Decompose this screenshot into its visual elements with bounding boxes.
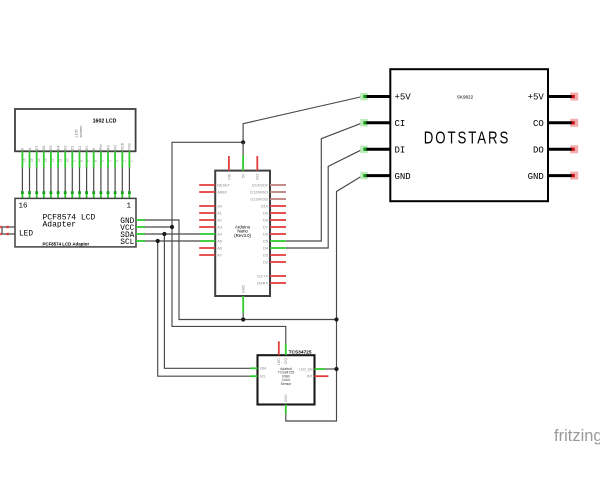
Nano pin A7 bbox=[199, 253, 222, 257]
svg-text:D1: D1 bbox=[78, 146, 82, 150]
svg-text:16: 16 bbox=[23, 158, 27, 162]
svg-text:5V: 5V bbox=[242, 173, 246, 178]
junction GND at TCS LED_EN bbox=[334, 367, 338, 371]
wire VCC net adapter-to-Nano5V bbox=[145, 142, 243, 227]
TCS pin GND bottom bbox=[284, 394, 288, 414]
svg-text:A2: A2 bbox=[217, 218, 222, 222]
Nano pin D4 bbox=[263, 246, 286, 250]
svg-text:3V3: 3V3 bbox=[284, 358, 288, 364]
Nano pin AREF bbox=[199, 190, 228, 194]
svg-text:GND: GND bbox=[528, 172, 544, 182]
svg-text:SCL: SCL bbox=[260, 375, 267, 379]
wire LCD pin 15 to adapter pin 15 bbox=[28, 147, 34, 198]
TCS pin INT right red stub bbox=[307, 375, 328, 379]
wire LCD pin 8 to adapter pin 8 bbox=[78, 146, 84, 199]
wire LCD pin 6 to adapter pin 6 bbox=[92, 147, 98, 198]
svg-text:screen: screen bbox=[78, 125, 83, 137]
svg-text:D1/TX: D1/TX bbox=[257, 274, 268, 278]
svg-text:(Rev3.0): (Rev3.0) bbox=[234, 233, 251, 238]
adapter SDA pin leg bbox=[136, 233, 145, 235]
svg-text:INT: INT bbox=[307, 375, 312, 379]
svg-text:D2: D2 bbox=[263, 260, 268, 264]
svg-text:TCS34725: TCS34725 bbox=[289, 349, 312, 355]
svg-text:14: 14 bbox=[37, 158, 41, 162]
svg-text:AREF: AREF bbox=[217, 190, 228, 194]
svg-text:1: 1 bbox=[127, 203, 132, 211]
svg-text:D10: D10 bbox=[261, 204, 268, 208]
junction SCL at adapter row bbox=[156, 239, 160, 243]
svg-text:D5: D5 bbox=[263, 239, 268, 243]
svg-text:A4: A4 bbox=[217, 232, 222, 236]
wire VCC net Nano5V-to-DOTSTAR+5V bbox=[243, 97, 362, 143]
DOTSTARS right pin GND bbox=[528, 172, 579, 182]
svg-text:VSS: VSS bbox=[128, 142, 132, 150]
svg-text:GND: GND bbox=[242, 285, 246, 294]
wire LCD pin 10 to adapter pin 10 bbox=[64, 146, 70, 199]
svg-text:12: 12 bbox=[51, 158, 55, 162]
Nano pin 5V bbox=[242, 142, 246, 178]
Nano pin A2 bbox=[199, 218, 222, 222]
svg-text:fritzing: fritzing bbox=[554, 427, 600, 445]
svg-text:Sensor: Sensor bbox=[281, 382, 293, 386]
PCF8574 LCD adapter U2 body bbox=[15, 198, 136, 247]
Nano pin 3V3 bbox=[256, 156, 260, 180]
svg-text:8: 8 bbox=[80, 160, 84, 162]
wire CI NanoD5-to-DOTSTAR CI bbox=[286, 123, 363, 241]
svg-text:RW: RW bbox=[99, 144, 103, 150]
svg-text:A3: A3 bbox=[217, 225, 222, 229]
svg-text:A6: A6 bbox=[217, 246, 222, 250]
svg-text:LED: LED bbox=[19, 230, 33, 238]
DOTSTARS right pin CO bbox=[533, 119, 578, 129]
Nano pin D1/TX bbox=[257, 274, 286, 278]
svg-text:D9: D9 bbox=[263, 211, 268, 215]
wire SCL adapter-to-NanoA5 bbox=[145, 240, 200, 242]
adapter title PCF8574 LCD Adapter bbox=[43, 214, 96, 230]
svg-text:DO: DO bbox=[533, 146, 544, 156]
Arduino Nano title bbox=[234, 224, 251, 238]
svg-text:3V3: 3V3 bbox=[256, 174, 260, 181]
svg-text:D7: D7 bbox=[35, 146, 39, 150]
DOTSTARS right pin DO bbox=[533, 145, 578, 155]
svg-text:RESET: RESET bbox=[217, 183, 230, 187]
svg-text:10: 10 bbox=[66, 158, 70, 162]
wire LCD pin 16 to adapter pin 16 bbox=[21, 147, 27, 198]
svg-text:D0/RX: D0/RX bbox=[257, 281, 269, 285]
svg-text:+5V: +5V bbox=[395, 93, 412, 103]
svg-text:PCF8574 LCD Adaptor: PCF8574 LCD Adaptor bbox=[43, 241, 90, 246]
LED jumper wire with red leg tips bbox=[0, 226, 15, 235]
wire LCD pin 9 to adapter pin 9 bbox=[71, 146, 77, 199]
wire LCD pin 13 to adapter pin 13 bbox=[42, 146, 48, 199]
junction 5V above Nano bbox=[241, 140, 245, 144]
adapter SCL pin leg bbox=[136, 240, 145, 242]
svg-text:LED: LED bbox=[277, 358, 281, 365]
TCS pin SDA left bbox=[250, 367, 267, 371]
svg-text:D4: D4 bbox=[56, 146, 60, 150]
Nano pin D0/RX bbox=[257, 281, 286, 285]
svg-text:GND: GND bbox=[395, 172, 411, 182]
svg-text:D6: D6 bbox=[42, 146, 46, 150]
svg-text:GND: GND bbox=[284, 394, 288, 402]
junction GND at Nano GND pin bbox=[241, 317, 245, 321]
svg-text:5: 5 bbox=[101, 160, 105, 162]
wire GND net adapter-to-NanoGND bbox=[145, 220, 337, 320]
wire LCD pin 4 to adapter pin 4 bbox=[106, 145, 112, 199]
svg-text:VO: VO bbox=[113, 145, 117, 150]
svg-text:6: 6 bbox=[94, 160, 98, 162]
Nano pin A1 bbox=[199, 211, 222, 215]
adapter VCC pin leg bbox=[136, 226, 145, 228]
DOTSTARS left pin GND bbox=[360, 172, 410, 182]
Nano pin D3 bbox=[263, 253, 286, 257]
Nano pin RESET bbox=[199, 183, 230, 187]
wire GND net down-to-TCS GND bbox=[286, 320, 337, 422]
Nano pin D2 bbox=[263, 260, 286, 264]
wire LCD pin 11 to adapter pin 11 bbox=[56, 146, 62, 199]
svg-text:D2: D2 bbox=[71, 146, 75, 150]
svg-text:D6: D6 bbox=[263, 232, 268, 236]
junction GND right column bbox=[334, 317, 338, 321]
DOTSTARS right pin +5V bbox=[528, 93, 579, 103]
svg-text:CI: CI bbox=[395, 119, 406, 129]
wire LCD pin 14 to adapter pin 14 bbox=[35, 146, 41, 199]
svg-text:CO: CO bbox=[533, 119, 544, 129]
svg-text:D8: D8 bbox=[263, 218, 268, 222]
Nano pin A4 bbox=[200, 232, 222, 236]
Nano pin D11/MOSI bbox=[251, 197, 286, 201]
wire LCD pin 5 to adapter pin 5 bbox=[99, 144, 105, 199]
svg-text:D12/MISO: D12/MISO bbox=[250, 190, 268, 194]
svg-text:9: 9 bbox=[73, 160, 77, 162]
Nano pin A3 bbox=[199, 225, 222, 229]
svg-text:1602 LCD: 1602 LCD bbox=[93, 119, 117, 125]
TCS34725 U5 body bbox=[258, 355, 315, 404]
DOTSTARS title bbox=[424, 128, 510, 147]
svg-text:VIN: VIN bbox=[227, 173, 231, 180]
TCS pin LED top red stub bbox=[277, 341, 281, 365]
wire Nano GND pin stub bbox=[242, 313, 244, 320]
wire LCD pin 3 to adapter pin 3 bbox=[113, 145, 119, 199]
LCD1602 rotated part label bbox=[74, 125, 84, 137]
Nano pin D8 bbox=[263, 218, 286, 222]
Nano pin A0 bbox=[199, 204, 222, 208]
svg-text:VDD: VDD bbox=[121, 142, 125, 150]
svg-text:+5V: +5V bbox=[528, 93, 545, 103]
TCS34725 center label bbox=[278, 367, 294, 386]
svg-text:D5: D5 bbox=[49, 146, 53, 150]
Nano pin A5 bbox=[200, 239, 222, 243]
Nano pin D6 bbox=[263, 232, 286, 236]
svg-text:16: 16 bbox=[19, 203, 29, 211]
DOTSTARS left pin +5V bbox=[360, 93, 411, 103]
Arduino Nano U1 body bbox=[215, 171, 270, 296]
wire SCL adapter-to-TCS SCL bbox=[158, 241, 250, 376]
Nano pin D10 bbox=[261, 204, 286, 208]
Nano pin D12/MISO bbox=[250, 190, 286, 194]
svg-text:7: 7 bbox=[87, 160, 91, 162]
svg-text:D0: D0 bbox=[85, 146, 89, 150]
svg-text:SK9822: SK9822 bbox=[457, 94, 474, 99]
svg-text:D11/MOSI: D11/MOSI bbox=[251, 197, 268, 201]
svg-text:Adapter: Adapter bbox=[43, 221, 77, 230]
svg-text:LED_EN: LED_EN bbox=[299, 367, 313, 371]
svg-text:13: 13 bbox=[44, 158, 48, 162]
svg-text:4: 4 bbox=[108, 160, 112, 162]
svg-text:D3: D3 bbox=[64, 146, 68, 150]
Nano pin D13/SCK bbox=[252, 183, 286, 187]
svg-text:RS: RS bbox=[106, 145, 110, 150]
Nano pin D5 bbox=[263, 239, 286, 243]
svg-text:2: 2 bbox=[123, 160, 127, 162]
DOTSTARS left pin DI bbox=[360, 146, 405, 156]
TCS pin SCL left bbox=[250, 375, 266, 379]
svg-text:1: 1 bbox=[130, 160, 134, 162]
svg-text:D4: D4 bbox=[263, 246, 268, 250]
wire GND net up-to-DOTSTAR GND bbox=[337, 176, 363, 320]
TCS pin LED_EN right bbox=[299, 367, 325, 371]
DOTSTARS left pin CI bbox=[360, 119, 405, 129]
wire LCD pin 7 to adapter pin 7 bbox=[85, 146, 91, 199]
wire LCD pin 12 to adapter pin 12 bbox=[49, 146, 55, 199]
junction SDA at adapter row bbox=[162, 232, 166, 236]
Nano pin A6 bbox=[199, 246, 222, 250]
svg-text:A1: A1 bbox=[217, 211, 222, 215]
svg-text:3: 3 bbox=[115, 160, 119, 162]
svg-text:D3: D3 bbox=[263, 253, 268, 257]
svg-text:D7: D7 bbox=[263, 225, 268, 229]
Nano pin VIN bbox=[227, 156, 231, 180]
wire TCS LED_EN to GND junction bbox=[325, 368, 337, 370]
LCD1602 U3 body bbox=[15, 109, 136, 151]
svg-text:SCL: SCL bbox=[120, 239, 134, 247]
wire LCD pin 2 to adapter pin 2 bbox=[121, 142, 127, 198]
wire SDA adapter-to-NanoA4 bbox=[145, 233, 200, 235]
wire SDA adapter-to-TCS SDA bbox=[164, 234, 250, 368]
adapter GND pin leg bbox=[136, 219, 145, 221]
wire VCC net adapter-to-TCS3V3 bbox=[172, 227, 286, 344]
Nano pin GND bottom bbox=[242, 285, 246, 313]
svg-text:15: 15 bbox=[30, 158, 34, 162]
wire DI NanoD4-to-DOTSTAR DI bbox=[286, 149, 363, 248]
TCS pin 3V3 top bbox=[284, 344, 288, 364]
svg-text:A0: A0 bbox=[217, 204, 222, 208]
svg-text:SDA: SDA bbox=[260, 367, 268, 371]
svg-text:A5: A5 bbox=[217, 239, 222, 243]
svg-text:D13/SCK: D13/SCK bbox=[252, 183, 268, 187]
Nano pin D7 bbox=[263, 225, 286, 229]
wire LCD pin 1 to adapter pin 1 bbox=[128, 142, 134, 198]
svg-text:A7: A7 bbox=[217, 253, 222, 257]
svg-text:11: 11 bbox=[58, 158, 62, 162]
Nano pin D9 bbox=[263, 211, 286, 215]
DOTSTARS U4 body bbox=[390, 69, 548, 201]
svg-text:DI: DI bbox=[395, 146, 406, 156]
svg-text:DOTSTARS: DOTSTARS bbox=[424, 128, 510, 147]
junction VCC at adapter row bbox=[170, 225, 174, 229]
